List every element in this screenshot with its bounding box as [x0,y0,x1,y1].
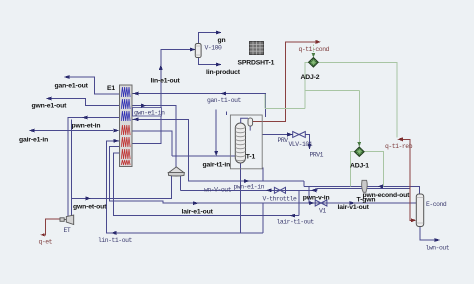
label E1 [107,85,115,92]
wire E1 right connection stair 2 [133,131,173,156]
label gan-t1-out [207,97,241,104]
label V1 [319,208,326,215]
label pwn-et-in [72,122,101,129]
svg-text:SPRDSHT-1: SPRDSHT-1 [238,59,275,66]
label gwn-e1-out [32,103,68,110]
mixer MIX-100 dome [168,167,184,176]
condenser exchanger E-cond vessel [416,194,423,227]
heat exchanger E1 body [120,85,133,167]
svg-text:gan-e1-out: gan-e1-out [55,82,89,89]
green ADJ-2 left connection down to ADJ-1 [305,62,359,108]
wire stream gwn-e1-out from E1 left [46,97,119,106]
svg-text:PRV: PRV [278,137,289,144]
svg-text:lin-product: lin-product [206,69,241,76]
label box gwn-e1-in [133,108,166,117]
svg-text:q-et: q-et [39,239,53,246]
svg-text:gair-t1-in: gair-t1-in [203,162,231,169]
label ADJ-1 [350,162,369,169]
valve VLV-101 bowtie [293,132,306,138]
svg-text:PRV1: PRV1 [310,151,324,158]
wire stream lin-e1-out from E1 right to V-100 [133,48,196,167]
svg-text:T-gwn: T-gwn [357,196,376,203]
svg-text:ADJ-1: ADJ-1 [350,162,369,169]
wire VLV-101 outlet stream PRV1 down [305,135,311,150]
energy stream q-t1-cond maroon from T-1 condenser [252,40,321,122]
label lair-v1-out [338,204,370,211]
energy stream q-et maroon to ET [41,219,61,236]
svg-text:E-cond: E-cond [426,201,447,208]
label gair-t1-in [203,162,231,169]
label T-gwn [357,196,376,203]
wire arrow into valve V1 [309,201,315,205]
svg-text:gn: gn [218,37,226,44]
svg-text:gwn-e1-out: gwn-e1-out [32,103,68,110]
wire vertical with arrow onto gair-t1-in line [214,110,218,157]
wire stream wn-V-out through V-throttle to mixer [181,176,318,193]
green ADJ-1 right leg down to pwn-econd-out [364,152,383,187]
svg-text:T-1: T-1 [246,154,256,161]
column T-1 tower [235,123,245,163]
svg-text:lin-e1-out: lin-e1-out [151,78,181,85]
label gwn-et-out [73,203,107,210]
svg-text:lair-v1-out: lair-v1-out [338,204,370,211]
T-1 condenser drum [241,118,253,131]
label V-100 [205,45,223,52]
energy stream q-t1-reb maroon arrow [397,137,416,222]
label T-1 [246,154,256,161]
wire stream gair-e1-in into E1 left [29,129,119,133]
label V-throttle [263,196,297,203]
valve V-throttle bowtie [274,187,285,193]
label SPRDSHT-1 [238,59,275,66]
svg-text:q-t1-reb: q-t1-reb [385,143,413,150]
svg-text:ET: ET [64,227,71,234]
label E-cond [426,201,447,208]
label PRV [278,137,289,144]
svg-text:E1: E1 [107,85,115,92]
green ADJ-1 top vertical [357,91,361,147]
wire T-1 bottom right jog [263,168,304,233]
svg-text:gwn-et-out: gwn-et-out [73,203,107,210]
svg-text:gwn-e1-in: gwn-e1-in [134,109,165,116]
wire stream gwn-et-out from ET to mixer [71,176,171,201]
svg-text:V1: V1 [319,208,326,215]
wire stream pwn-econd-out from E-cond top [304,184,420,203]
label lair-e1-out [182,208,214,215]
svg-text:lin-t1-out: lin-t1-out [98,237,132,244]
expander turbine ET [60,215,74,224]
adjust block ADJ-2 diamond [309,58,319,68]
wire stream lwn-out from E-cond bottom [420,227,440,243]
label gair-e1-in [19,136,48,143]
svg-text:lwn-out: lwn-out [426,245,450,252]
svg-text:pwn-v-in: pwn-v-in [303,194,330,201]
label lin-e1-out [151,78,181,85]
svg-text:lair-e1-out: lair-e1-out [182,208,214,215]
label PRV1 [310,151,324,158]
E1 cold side red coils [121,125,130,165]
wire stream gn from V-100 top [199,31,222,44]
green ADJ-2 right connection to q-t1-reb [318,62,397,137]
svg-text:pwn-e1-in: pwn-e1-in [234,184,265,191]
spreadsheet SPRDSHT-1 icon [250,42,264,55]
label q-et [39,239,53,246]
wire stream gair-t1-in from mixer to T-1 [172,155,235,157]
wire stream lin-product from V-100 bottom [199,58,222,67]
svg-text:gan-t1-out: gan-t1-out [207,97,241,104]
turbine T-gwn [362,180,367,192]
svg-text:ADJ-2: ADJ-2 [301,74,320,81]
green ADJ-1 left leg down [350,152,354,187]
wire T-1 box top stub [226,112,228,116]
label wn-V-out [204,187,232,194]
svg-text:wn-V-out: wn-V-out [204,187,232,194]
E1 hot side blue coils [121,87,130,121]
label lair-t1-out [277,218,315,225]
wire stream lair-t1-out line from E1 left [113,153,298,218]
valve V1 bowtie [315,200,327,206]
wire VLV-101 inlet from T-1 [262,133,292,137]
wire stream lair-e1-out long line from E1 left to E-cond [110,147,417,206]
label gn [218,37,226,44]
label q-t1-cond [299,46,330,53]
svg-text:gair-e1-in: gair-e1-in [19,136,48,143]
label VLV-101 [289,141,313,148]
wire second vertical into ET turbine [70,120,72,216]
label ADJ-2 [301,74,320,81]
svg-text:q-t1-cond: q-t1-cond [299,46,330,53]
label lin-product [206,69,241,76]
adjust block ADJ-1 diamond [354,147,364,157]
wire stream pwn-et-in from E1 left down to ET [68,116,119,217]
column sub-flowsheet T-1 box [230,115,262,169]
svg-text:VLV-101: VLV-101 [289,141,313,148]
label pwn-e1-in [234,184,265,191]
label gan-e1-out [55,82,89,89]
label ET [64,227,71,234]
label pwn-v-in [303,194,330,201]
green connection to gan-t1-out line [265,94,305,109]
svg-text:V-throttle: V-throttle [263,196,297,203]
wire stream gwn-e1-in from E1 right down [133,117,305,183]
separator vessel V-100 [195,44,201,58]
wire stream gan-t1-out from T-1 top to E1 right [133,92,266,118]
wire stream lin-t1-out loop from T-1 bottom to E1 left [106,139,262,235]
label lwn-out [426,245,450,252]
wire stream gan-e1-out from E1 left [64,75,119,94]
green ADJ-2 top link to q-t1-cond [311,45,315,58]
label lin-t1-out [98,237,132,244]
svg-text:lair-t1-out: lair-t1-out [277,218,315,225]
label pwn-econd-out [363,192,411,199]
label q-t1-reb [385,143,413,150]
wire stream pwn line 2 into E-cond top [317,189,410,191]
wire arrow on lair-v1-out [350,201,356,205]
svg-text:pwn-et-in: pwn-et-in [72,122,101,129]
svg-text:V-100: V-100 [205,45,223,52]
